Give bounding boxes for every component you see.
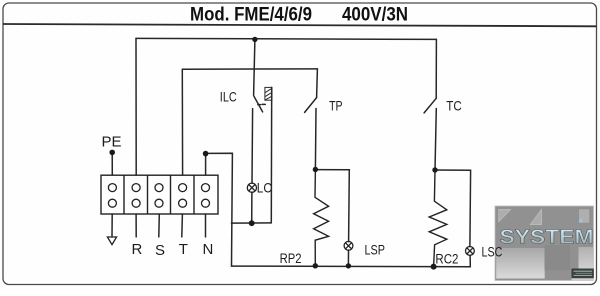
resistor RP2: [314, 170, 329, 266]
wire: TC riser from top bus: [435, 39, 437, 98]
switch TP blade: [305, 98, 317, 113]
thermal hatch box of ILC: [265, 87, 272, 100]
svg-text:PE: PE: [102, 134, 122, 151]
wire: bottom neutral bus: [232, 255, 471, 267]
wire: LSP branch horizontal: [315, 170, 349, 242]
wire: TC switch lower lead: [435, 109, 436, 171]
terminal bottom stubs: [112, 214, 206, 237]
wire: TP switch upper stub: [316, 69, 319, 98]
switch ILC link dashes: [258, 104, 261, 106]
wire: LC lamp to junction: [251, 192, 253, 223]
node: LC lamp / neutral junction: [249, 220, 255, 226]
svg-text:S: S: [155, 242, 165, 259]
wire: ILC output to LC lamp: [251, 109, 254, 184]
node: top bus / ILC junction: [252, 37, 257, 42]
svg-text:ILC: ILC: [220, 89, 237, 105]
svg-text:N: N: [203, 241, 214, 258]
node: TP output: [313, 167, 318, 172]
node: RP2 bottom: [313, 263, 318, 268]
lamp LSC: [466, 247, 475, 256]
terminal block: [101, 175, 218, 214]
wire: hatch box right lead down: [270, 87, 272, 223]
wire: lamp junction horizontal: [231, 222, 271, 224]
svg-text:TP: TP: [329, 98, 343, 114]
switch ILC blade: [254, 96, 263, 112]
svg-text:400V/3N: 400V/3N: [342, 5, 408, 26]
svg-text:Mod. FME/4/6/9: Mod. FME/4/6/9: [190, 5, 312, 26]
wire: T to TP top edge: [182, 68, 317, 70]
svg-text:LSC: LSC: [482, 244, 503, 259]
wire: N terminal riser: [205, 154, 207, 175]
node: RC2 bottom: [431, 264, 437, 270]
svg-text:RC2: RC2: [435, 251, 458, 266]
svg-text:LC: LC: [257, 180, 272, 196]
wire: TP switch lower lead: [314, 109, 317, 170]
wire: R phase riser: [135, 38, 137, 175]
svg-text:R: R: [132, 241, 143, 258]
title separator line: [3, 24, 597, 26]
svg-text:SYSTEM: SYSTEM: [500, 226, 594, 248]
wire: LSP lamp bottom lead: [347, 250, 349, 266]
svg-text:TC: TC: [446, 98, 462, 114]
wire: LSC branch horizontal: [435, 170, 471, 247]
node: LSP bottom: [346, 263, 351, 268]
svg-text:T: T: [179, 241, 188, 258]
svg-text:RP2: RP2: [280, 251, 302, 266]
wire: ILC branch drop: [254, 39, 255, 95]
wire: top bus: [136, 38, 436, 39]
node: TC output: [432, 167, 437, 172]
lamp LSP: [344, 241, 353, 250]
node: PE stub dot: [109, 150, 115, 156]
resistor RC2: [429, 170, 447, 267]
wire: T terminal riser: [181, 69, 183, 175]
ground symbol: [107, 237, 116, 245]
svg-text:LSP: LSP: [365, 243, 386, 258]
wire: N horizontal run: [206, 153, 233, 266]
lamp LC: [247, 183, 256, 192]
terminal circles: [108, 184, 209, 208]
node: N run corner dot: [203, 151, 209, 157]
switch TC blade: [424, 98, 436, 113]
wire: PE stub: [111, 152, 113, 175]
